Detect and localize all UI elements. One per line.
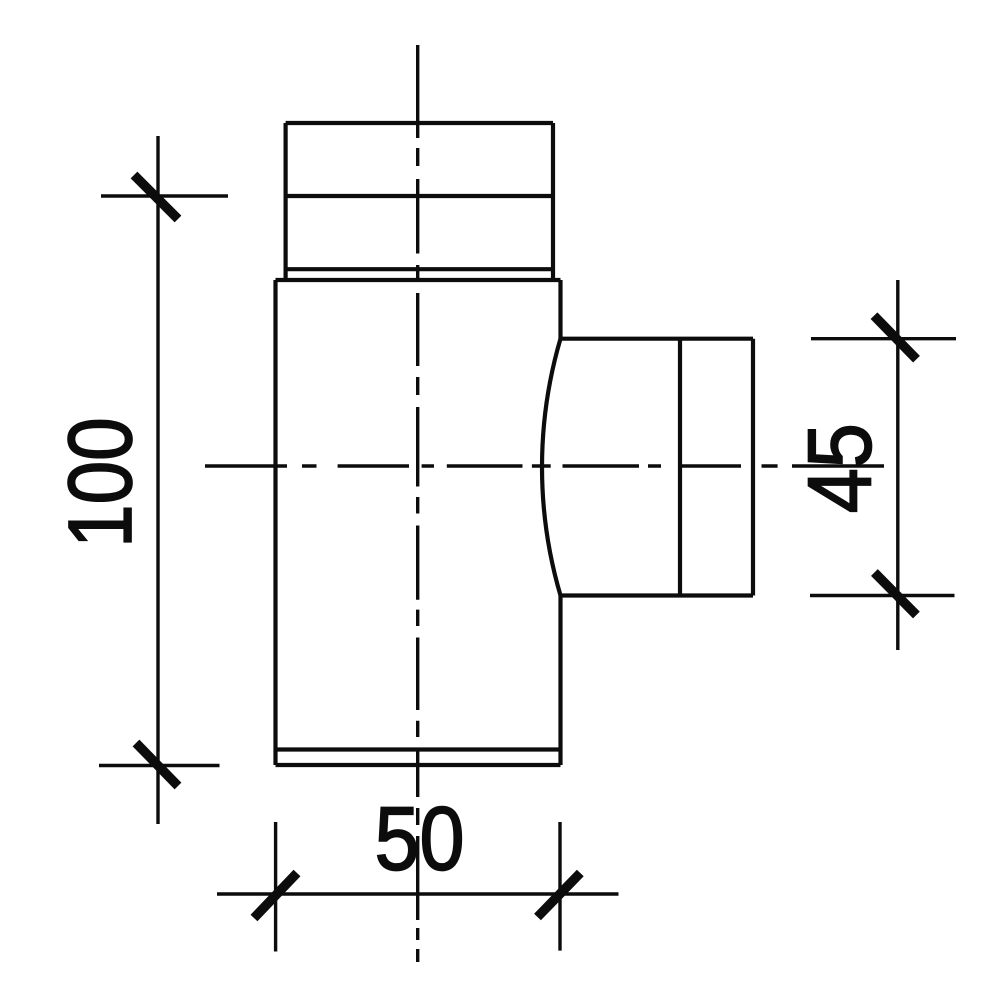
svg-text:50: 50	[374, 790, 464, 890]
svg-text:100: 100	[51, 417, 151, 547]
svg-text:45: 45	[791, 423, 891, 513]
